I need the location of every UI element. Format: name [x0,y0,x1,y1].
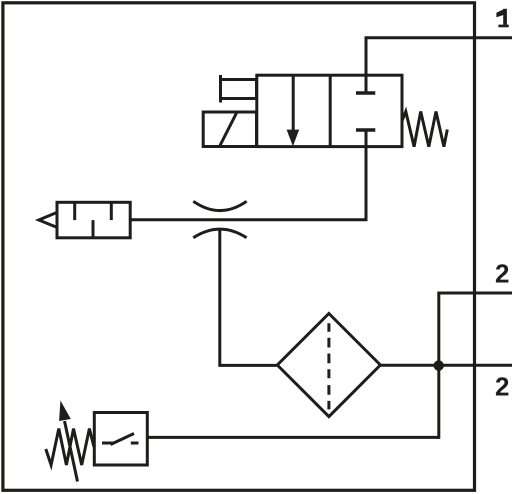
svg-text:2: 2 [495,372,509,402]
svg-text:2: 2 [495,258,509,288]
